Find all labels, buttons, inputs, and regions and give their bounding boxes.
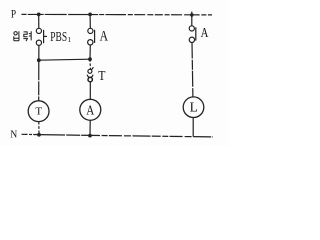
svg-text:1: 1 bbox=[67, 35, 71, 44]
junction dot: N bus / branch 2 bbox=[88, 134, 92, 138]
lamp L (circle) bbox=[183, 97, 204, 118]
timer coil T (circle) bbox=[28, 101, 49, 122]
timer contact T lower circle bbox=[88, 77, 92, 81]
wire: bottom bus N bbox=[22, 133, 40, 135]
wire: contact A to cross junction bbox=[89, 45, 91, 59]
pushbutton PBS1 actuator bar bbox=[43, 30, 45, 43]
pushbutton PBS1 actuator tick bbox=[44, 35, 47, 37]
contact A (branch2) bar bbox=[94, 30, 96, 43]
timer contact T upper circle bbox=[88, 69, 92, 73]
svg-text:A: A bbox=[100, 28, 109, 44]
wire: coil A to N bus bbox=[89, 120, 91, 135]
junction dot: branch2 / cross wire bbox=[88, 57, 92, 61]
wire: contact A down to lamp L bbox=[191, 43, 194, 98]
timer contact T delay cup arc bbox=[87, 75, 93, 78]
pushbutton PBS1 lower contact circle bbox=[36, 40, 41, 45]
svg-text:L: L bbox=[190, 99, 198, 114]
wire: top bus P bbox=[22, 13, 119, 15]
stub above branch-3 junction bbox=[191, 12, 193, 15]
junction dot: P bus / branch 1 bbox=[37, 13, 41, 17]
junction dot: P bus / branch 3 bbox=[190, 13, 194, 17]
timer contact T blade tick bbox=[91, 67, 93, 70]
junction dot: N bus / branch 1 bbox=[37, 133, 41, 137]
contact A (branch2) upper circle bbox=[88, 28, 93, 33]
wire: timer coil to N bus (dotted) bbox=[38, 122, 40, 135]
contact A (branch3) upper circle bbox=[189, 26, 194, 31]
wire: branch1 top bus to PBS bbox=[38, 14, 40, 28]
wire: branch1 junction down to timer coil T bbox=[38, 60, 40, 101]
svg-text:T: T bbox=[35, 106, 42, 118]
svg-text:P: P bbox=[11, 9, 16, 21]
contact A (branch3) bar bbox=[195, 27, 197, 40]
relay coil A (circle) bbox=[80, 99, 101, 120]
svg-text:N: N bbox=[10, 130, 17, 141]
wire: PBS to junction A1 bbox=[38, 45, 40, 60]
svg-text:A: A bbox=[86, 104, 95, 119]
contact A (branch3) lower circle bbox=[189, 37, 194, 42]
wire: lamp L to N bus bbox=[192, 118, 194, 137]
wire: branch3 top bus to contact A bbox=[191, 15, 193, 26]
pushbutton PBS1 upper contact circle bbox=[36, 28, 41, 33]
wire: junction to timer contact (dotted) bbox=[89, 59, 91, 69]
label 입력 (input) bbox=[14, 31, 31, 41]
svg-text:PBS: PBS bbox=[50, 29, 67, 44]
junction dot: P bus / branch 2 bbox=[88, 13, 92, 17]
svg-text:T: T bbox=[98, 68, 106, 83]
wire: timer contact to ammeter A bbox=[89, 82, 91, 99]
junction dot: branch1 / cross wire bbox=[37, 58, 41, 62]
svg-text:A: A bbox=[201, 25, 209, 40]
wire: branch2 top bus to contact A bbox=[89, 14, 91, 28]
contact A (branch2) lower circle bbox=[88, 40, 93, 45]
wire: cross connector between branch1 and branch2 bbox=[39, 59, 90, 60]
